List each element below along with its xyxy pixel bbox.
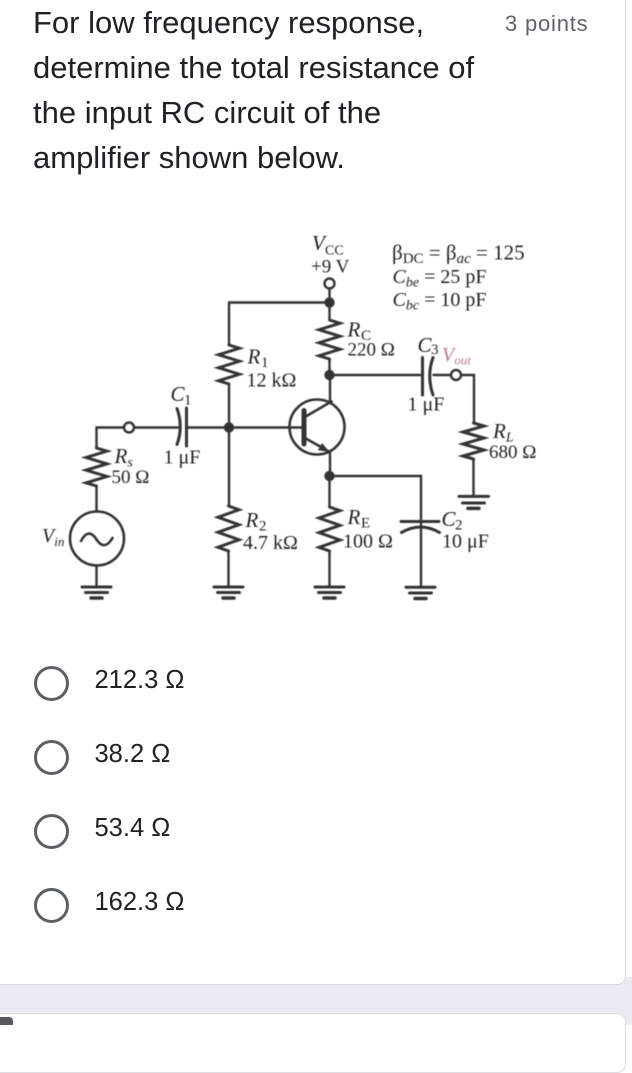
wire RL bottom lead [472, 459, 474, 495]
resistor R2 [218, 506, 239, 551]
next card (bottom, partially visible) [0, 1013, 626, 1073]
wire R2 top lead [228, 428, 230, 507]
wire R1 bottom lead [228, 384, 230, 428]
wire RC bottom lead [328, 359, 330, 375]
wire C1 to base node [188, 426, 229, 428]
resistor RC [319, 320, 340, 359]
node base junction [224, 422, 234, 432]
svg-text:50 Ω: 50 Ω [112, 467, 150, 488]
answer option 3 [34, 814, 69, 849]
ground RL [459, 496, 489, 508]
wire output to RL [462, 375, 475, 423]
node Vcc terminal [325, 279, 335, 289]
page background lavender area (bottom) [0, 977, 632, 1025]
node Vcc junction [324, 297, 334, 307]
svg-text:Cbc = 10 pF: Cbc = 10 pF [393, 289, 487, 314]
wire C3 to output terminal [434, 374, 451, 376]
answer option 1 [34, 666, 69, 701]
answer option 2 [34, 740, 69, 775]
svg-text:E: E [361, 516, 370, 532]
svg-text:Cbe = 25 pF: Cbe = 25 pF [393, 266, 487, 291]
capacitor C3 [421, 358, 424, 396]
svg-text:220 Ω: 220 Ω [348, 340, 395, 361]
circuit schematic [0, 0, 632, 632]
wire Vin to ground [95, 566, 97, 586]
svg-text:βDC = βac = 125: βDC = βac = 125 [392, 241, 525, 268]
resistor RL [463, 423, 484, 459]
svg-text:4.7 kΩ: 4.7 kΩ [243, 532, 298, 554]
wire RE top lead [328, 476, 330, 507]
wire RC top lead [328, 303, 330, 321]
node emitter junction [324, 471, 334, 481]
capacitor C1 [177, 409, 180, 445]
question text [33, 0, 474, 180]
svg-text:R: R [247, 345, 261, 369]
points label [505, 12, 588, 36]
svg-text:1: 1 [184, 393, 192, 409]
node input terminal [124, 423, 134, 433]
svg-text:100 Ω: 100 Ω [343, 531, 393, 553]
wire R1 top lead [228, 303, 230, 346]
wire emitter vertical [329, 452, 331, 476]
svg-text:10 μF: 10 μF [442, 531, 489, 553]
svg-text:1 μF: 1 μF [164, 447, 201, 469]
wire terminal to C1 [135, 426, 179, 428]
wire collector to C3 [330, 374, 421, 376]
svg-text:12 kΩ: 12 kΩ [247, 370, 297, 392]
svg-text:Vout: Vout [442, 344, 471, 368]
wire R2 bottom lead [227, 551, 229, 586]
node collector junction [324, 370, 334, 380]
wire Vcc stub [328, 289, 330, 303]
ground Vin [82, 587, 111, 598]
resistor Rs [86, 448, 107, 486]
svg-text:3: 3 [431, 342, 439, 358]
ground R2 [214, 587, 243, 598]
wire top rail [229, 301, 330, 303]
source Vin [70, 512, 124, 566]
svg-text:R: R [245, 508, 259, 532]
answer option 4 [34, 888, 69, 923]
wire input node [97, 428, 124, 449]
svg-text:+9 V: +9 V [311, 257, 350, 278]
ground RE [315, 587, 344, 598]
resistor RE [319, 507, 340, 551]
svg-text:R: R [347, 318, 361, 342]
svg-text:1 μF: 1 μF [408, 394, 445, 416]
svg-text:Vin: Vin [42, 525, 64, 549]
wire Rs to Vin [95, 486, 97, 512]
capacitor C2 [401, 520, 439, 523]
svg-text:680 Ω: 680 Ω [489, 442, 536, 463]
wire base [232, 426, 302, 428]
thumbnail corner of image in next card [0, 1017, 13, 1025]
resistor R1 [219, 345, 240, 384]
wire collector vertical [329, 375, 331, 403]
ground C2 [406, 587, 435, 598]
wire RE bottom lead [328, 551, 330, 586]
node Vout terminal [451, 370, 461, 380]
svg-text:R: R [347, 505, 361, 529]
wire emitter to C2 [330, 476, 422, 586]
transistor Q1 [290, 400, 345, 455]
